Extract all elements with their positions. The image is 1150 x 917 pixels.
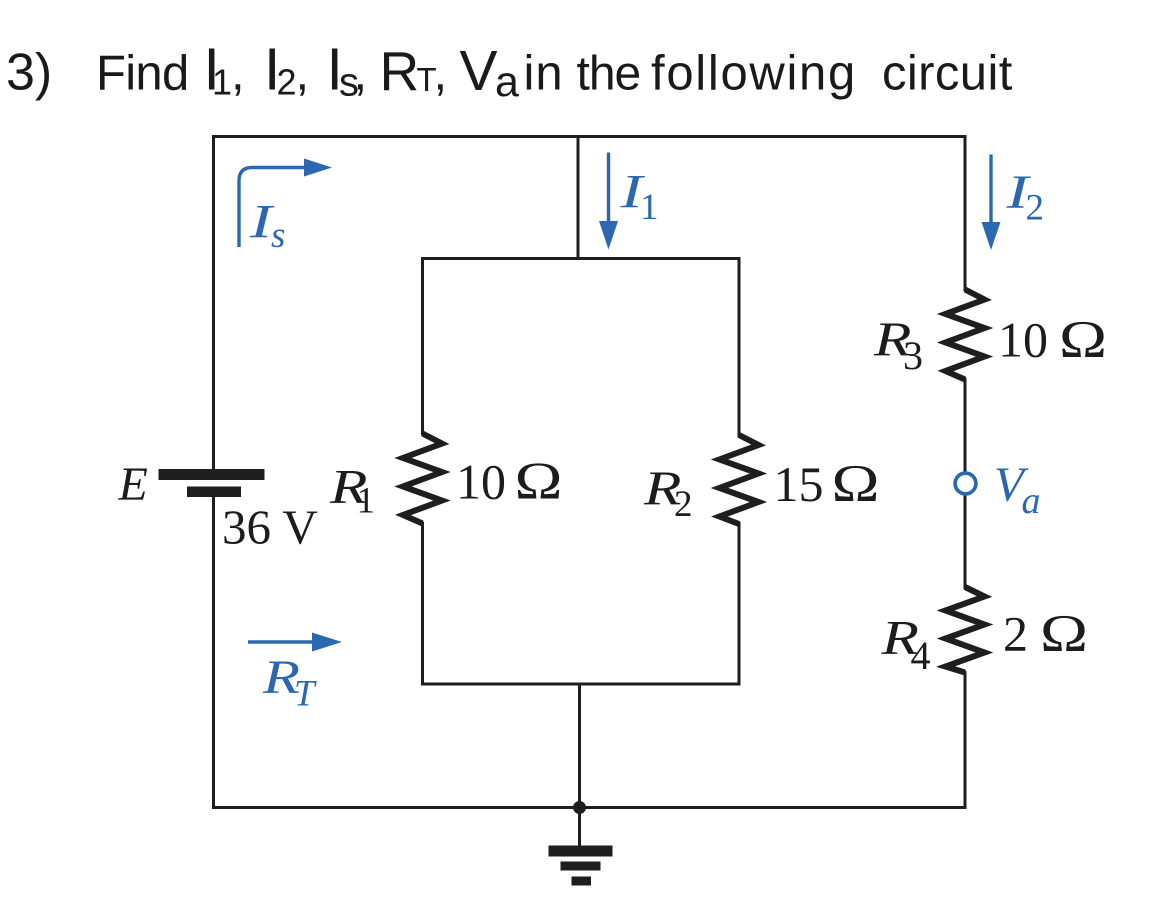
svg-text:following: following [651, 47, 857, 101]
svg-text:3: 3 [903, 333, 923, 378]
svg-text:,: , [296, 47, 310, 101]
svg-text:,: , [231, 47, 245, 101]
arrow Is (source current) [239, 159, 332, 248]
ground bar 1 [549, 846, 613, 857]
junction dot at ground node [573, 801, 586, 814]
svg-text:1: 1 [212, 61, 232, 102]
svg-text:2: 2 [1003, 606, 1028, 662]
svg-text:2: 2 [674, 484, 693, 525]
resistor R1 [403, 434, 442, 524]
wire: bottom middle (to ground node) [578, 684, 581, 808]
svg-text:s: s [271, 215, 285, 256]
resistor R2 [720, 435, 759, 524]
label Is [249, 196, 286, 257]
wire: ground stem [578, 807, 581, 846]
svg-text:15: 15 [774, 456, 824, 512]
wire: inner right lower (from R2) [738, 522, 741, 686]
svg-text:V: V [460, 39, 498, 103]
svg-text:Ω: Ω [1059, 311, 1107, 369]
svg-text:10: 10 [998, 312, 1048, 368]
svg-text:T: T [294, 674, 317, 715]
svg-text:3): 3) [6, 44, 52, 102]
arrow I2 [982, 155, 1001, 251]
label R1 [329, 459, 375, 522]
svg-text:Ω: Ω [832, 455, 880, 513]
label R3 [873, 312, 923, 379]
wire: outer left lower (from battery) [212, 496, 215, 809]
svg-text:10: 10 [456, 454, 506, 510]
svg-text:Ω: Ω [1040, 605, 1088, 663]
svg-text:R: R [380, 40, 420, 102]
resistor R4 [946, 587, 985, 673]
svg-text:1: 1 [640, 187, 659, 228]
ground bar 3 [572, 877, 592, 886]
wire: outer bottom [212, 806, 967, 809]
svg-text:the: the [577, 48, 641, 101]
ground bar 2 [561, 862, 601, 871]
svg-text:in: in [524, 47, 564, 101]
wire: inner rect top [421, 257, 741, 260]
problem title [6, 37, 1013, 107]
svg-text:Find: Find [96, 47, 189, 101]
battery E short plate [187, 487, 241, 498]
wire: inner right upper (to R2) [738, 257, 741, 437]
wire: top middle branch (I1) [577, 135, 580, 260]
wire: R4 to bottom [964, 671, 967, 809]
wire: R3 to node a [964, 378, 967, 472]
wire: inner left lower (from R1) [421, 522, 424, 686]
resistor R3 [946, 290, 985, 380]
node a (Va terminal circle) [955, 473, 976, 494]
svg-text:a: a [495, 58, 519, 106]
label RT [262, 651, 317, 715]
svg-text:1: 1 [357, 481, 376, 522]
label R4 [880, 610, 930, 678]
wire: right branch top (to R3) [964, 135, 967, 291]
label Va [994, 457, 1041, 523]
svg-text:Ω: Ω [515, 453, 563, 511]
svg-text:E: E [118, 458, 148, 511]
label R2 [643, 461, 693, 526]
wire: outer top [212, 135, 967, 138]
label I2 [1005, 166, 1044, 229]
wire: node a to R4 [964, 496, 967, 590]
svg-text:,: , [434, 47, 448, 101]
svg-text:circuit: circuit [882, 47, 1013, 101]
svg-text:4: 4 [911, 633, 931, 678]
wire: outer left upper (to battery) [212, 135, 215, 470]
wire: inner left upper (to R1) [421, 257, 424, 435]
svg-text:2: 2 [277, 61, 297, 102]
arrow RT (total resistance) [248, 633, 342, 652]
svg-text:a: a [1022, 480, 1041, 522]
wire: inner rect bottom [421, 683, 741, 686]
label I1 [619, 166, 658, 229]
svg-text:36 V: 36 V [222, 500, 318, 555]
svg-text:,: , [354, 47, 368, 101]
svg-text:2: 2 [1026, 188, 1045, 229]
battery E long plate [159, 469, 265, 480]
arrow I1 [599, 153, 618, 250]
